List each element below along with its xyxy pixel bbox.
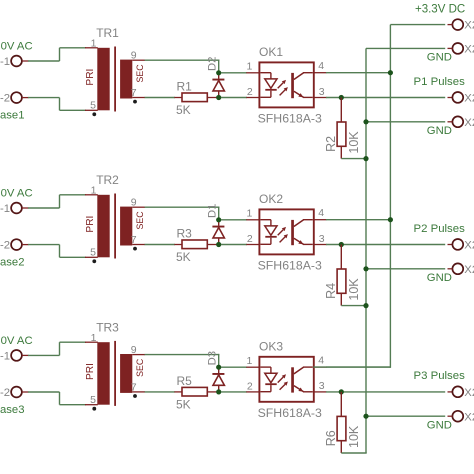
svg-text:SEC: SEC	[135, 64, 145, 83]
svg-text:X2: X2	[464, 44, 474, 56]
svg-text:R1: R1	[177, 80, 193, 94]
svg-text:SFH618A-3: SFH618A-3	[258, 111, 322, 125]
svg-text:10K: 10K	[347, 131, 361, 154]
svg-text:TR3: TR3	[96, 320, 119, 334]
svg-text:GND: GND	[427, 51, 452, 63]
svg-text:SFH618A-3: SFH618A-3	[258, 406, 322, 420]
svg-text:GND: GND	[427, 272, 452, 284]
svg-text:2: 2	[247, 381, 253, 393]
svg-text:D1: D1	[206, 204, 218, 218]
svg-text:5: 5	[90, 394, 96, 406]
svg-text:R5: R5	[177, 374, 193, 388]
svg-text:TR1: TR1	[96, 26, 119, 40]
svg-text:GND: GND	[427, 419, 452, 431]
svg-text:3: 3	[319, 86, 325, 98]
svg-text:P1 Pulses: P1 Pulses	[414, 76, 466, 88]
svg-text:2: 2	[247, 86, 253, 98]
svg-text:10K: 10K	[347, 278, 361, 301]
svg-text:5: 5	[90, 247, 96, 259]
svg-text:SEC: SEC	[135, 358, 145, 377]
svg-text:ase1: ase1	[0, 110, 25, 122]
svg-text:5K: 5K	[176, 250, 191, 264]
svg-text:-2: -2	[0, 240, 10, 252]
svg-text:4: 4	[318, 60, 324, 72]
svg-text:5K: 5K	[176, 397, 191, 411]
svg-text:5: 5	[90, 100, 96, 112]
svg-text:D2: D2	[206, 57, 218, 71]
svg-text:OK3: OK3	[259, 339, 283, 353]
svg-text:P2 Pulses: P2 Pulses	[414, 223, 466, 235]
svg-text:X2: X2	[464, 387, 474, 399]
svg-text:PRI: PRI	[85, 216, 96, 233]
svg-text:SFH618A-3: SFH618A-3	[258, 258, 322, 272]
svg-text:X2: X2	[464, 20, 474, 32]
svg-text:OK2: OK2	[259, 192, 283, 206]
svg-text:SEC: SEC	[135, 211, 145, 230]
svg-text:4: 4	[318, 207, 324, 219]
svg-text:-2: -2	[0, 387, 10, 399]
svg-text:-1: -1	[0, 350, 10, 362]
svg-text:0V AC: 0V AC	[1, 335, 33, 347]
svg-text:1: 1	[246, 61, 252, 73]
svg-text:-2: -2	[0, 93, 10, 105]
svg-text:X2: X2	[464, 264, 474, 276]
svg-text:1: 1	[246, 208, 252, 220]
svg-text:PRI: PRI	[85, 363, 96, 380]
svg-text:3: 3	[319, 380, 325, 392]
svg-text:D3: D3	[206, 351, 218, 365]
svg-text:R6: R6	[324, 430, 338, 446]
svg-text:0V AC: 0V AC	[1, 187, 33, 199]
svg-text:+3.3V DC: +3.3V DC	[415, 4, 465, 16]
svg-text:X2: X2	[464, 93, 474, 105]
svg-text:5K: 5K	[176, 103, 191, 117]
svg-text:TR2: TR2	[96, 173, 119, 187]
svg-text:-1: -1	[0, 56, 10, 68]
svg-text:ase3: ase3	[0, 404, 25, 416]
svg-text:GND: GND	[427, 125, 452, 137]
svg-text:X2: X2	[464, 117, 474, 129]
svg-text:R3: R3	[177, 227, 193, 241]
svg-text:4: 4	[318, 355, 324, 367]
svg-text:-1: -1	[0, 203, 10, 215]
svg-text:1: 1	[246, 355, 252, 367]
svg-text:P3 Pulses: P3 Pulses	[414, 370, 466, 382]
svg-text:2: 2	[247, 233, 253, 245]
svg-text:R2: R2	[324, 136, 338, 152]
svg-text:3: 3	[319, 233, 325, 245]
svg-text:X2: X2	[464, 240, 474, 252]
svg-text:10K: 10K	[347, 425, 361, 448]
svg-text:OK1: OK1	[259, 45, 283, 59]
svg-text:0V AC: 0V AC	[1, 40, 33, 52]
svg-text:R4: R4	[324, 283, 338, 299]
svg-text:ase2: ase2	[0, 257, 25, 269]
svg-text:PRI: PRI	[85, 69, 96, 86]
svg-text:X2: X2	[464, 411, 474, 423]
